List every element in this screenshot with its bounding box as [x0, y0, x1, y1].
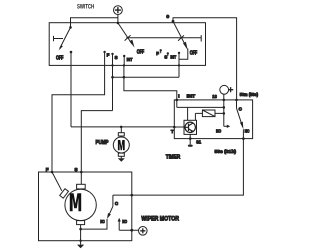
node c — [172, 20, 175, 23]
svg-text:S: S — [115, 55, 118, 60]
switch arm section 3 (to OFF) — [173, 21, 188, 50]
wire OFF1 down to pump bus — [70, 65, 72, 127]
wire INT2 to timer I — [124, 65, 177, 100]
node section 1 pivot — [69, 26, 72, 29]
ground 31 (timer) — [188, 145, 193, 147]
washer pump motor — [113, 127, 129, 156]
wire C out — [113, 194, 132, 196]
wire NO to plus — [119, 229, 138, 231]
brush (bottom) — [77, 221, 85, 225]
svg-text:I: I — [178, 93, 179, 98]
crossing X section 3 — [178, 35, 184, 40]
switch box S1 — [49, 23, 205, 66]
contact NO (motor) — [118, 218, 121, 231]
svg-text:F: F — [107, 53, 110, 58]
svg-text:C: C — [115, 201, 119, 206]
ground (wiper motor) — [77, 245, 84, 249]
contact C (motor) — [112, 195, 114, 206]
svg-text:INT: INT — [127, 57, 133, 62]
wire F rail to motor — [52, 65, 105, 172]
svg-text:WIPER MOTOR: WIPER MOTOR — [141, 215, 179, 222]
node NO/box edge — [130, 229, 133, 232]
node NC/box — [242, 137, 245, 140]
wire 1S down to NO — [223, 100, 225, 126]
node pump feed — [120, 126, 123, 129]
node INT2/H2 — [123, 76, 126, 79]
wire OFF3 to INT3 hook — [179, 49, 188, 60]
wire common to NC — [81, 226, 107, 230]
crossing X section 2 — [125, 35, 131, 40]
contact NO (timer) — [224, 125, 230, 128]
contact bar (park) section 1 — [54, 36, 64, 41]
ground (pump) — [118, 156, 125, 161]
svg-text:SWITCH: SWITCH — [77, 3, 94, 10]
svg-text:PUMP: PUMP — [96, 140, 109, 146]
terminal S (section 2) — [111, 53, 113, 55]
transistor Q1 — [184, 120, 197, 134]
power supply (motor NO) — [139, 227, 148, 236]
relay contact C — [236, 100, 238, 108]
wire F to brush — [52, 172, 62, 191]
node motor common — [79, 228, 82, 231]
wire motor common down — [80, 225, 82, 245]
wire S rail to motor — [81, 111, 112, 172]
switch arm section 1 (to OFF) — [59, 27, 71, 50]
wire contact rail — [126, 37, 201, 39]
svg-text:c: c — [166, 14, 169, 20]
power supply (timer 1S) — [220, 85, 233, 100]
terminal INT (section 3) — [178, 52, 180, 54]
svg-text:F: F — [156, 51, 159, 56]
svg-text:NC: NC — [100, 219, 105, 224]
svg-text:NC: NC — [245, 128, 250, 133]
terminal OFF1 post — [70, 51, 73, 54]
svg-text:S: S — [75, 167, 78, 172]
wire timer NC to motor C — [132, 139, 244, 196]
svg-text:OFF: OFF — [190, 51, 197, 57]
svg-text:INT: INT — [170, 55, 176, 60]
brush (angled) — [60, 189, 69, 198]
svg-text:F: F — [46, 167, 49, 172]
wire I down — [176, 100, 178, 108]
wire c to timer relay (top right) — [173, 18, 237, 100]
svg-text:53s (31b): 53s (31b) — [215, 149, 237, 155]
node relay C feed — [235, 99, 238, 102]
wire B+ stem — [117, 15, 119, 23]
contact NC (motor) — [106, 219, 108, 226]
contact bar right end — [200, 35, 202, 41]
wiper motor box — [39, 172, 132, 241]
node rail/1S — [223, 106, 226, 109]
svg-text:31: 31 — [196, 140, 201, 145]
wire H2 bus — [113, 76, 180, 78]
wire emitter to ground — [189, 134, 191, 144]
terminal F (section 2) — [103, 51, 105, 53]
svg-text:T: T — [171, 129, 174, 134]
svg-text:53m (53s): 53m (53s) — [240, 92, 259, 98]
svg-text:1S: 1S — [212, 94, 217, 99]
node T — [173, 126, 176, 129]
switch arm section 2 (to OFF) — [118, 23, 135, 48]
park arm C to NC — [107, 206, 113, 219]
terminal F (section 3) — [160, 49, 162, 51]
terminal INT (section 2) — [123, 55, 125, 57]
svg-text:OFF: OFF — [137, 50, 144, 56]
terminal S (section 3) — [167, 52, 169, 54]
wire T to base — [174, 126, 184, 128]
wire collector stub — [187, 107, 189, 120]
node S2/H2 — [111, 76, 114, 79]
wire S to brush — [80, 172, 82, 184]
svg-text:NO: NO — [216, 128, 222, 133]
node S (motor) — [80, 171, 83, 174]
brush (top) — [77, 184, 86, 189]
timer box U2 — [174, 100, 252, 139]
wiper motor M — [65, 189, 96, 220]
svg-text:OFF: OFF — [56, 56, 63, 62]
svg-text:TIMER: TIMER — [166, 154, 181, 160]
svg-text:NO: NO — [122, 219, 127, 224]
node emitter/box — [189, 137, 192, 140]
node C/box edge — [131, 194, 134, 197]
svg-text:S: S — [164, 54, 167, 59]
svg-text:C: C — [239, 107, 243, 112]
power supply B+ (top) — [114, 6, 123, 15]
node at B+ / switch common — [117, 22, 120, 25]
wire S2 down — [112, 65, 114, 110]
relay coil K1 — [195, 110, 225, 120]
wire pump bus to timer T — [71, 126, 174, 128]
wire top bus to section 1 — [71, 18, 118, 28]
wire collector rail — [177, 106, 224, 108]
node I — [176, 99, 179, 102]
wire INT3 drop through box — [178, 59, 180, 77]
contact NC (timer) — [242, 129, 244, 138]
relay arm to NC — [237, 108, 244, 129]
svg-text:INT: INT — [187, 93, 196, 98]
node F (motor) — [51, 171, 54, 174]
node 1S — [223, 99, 226, 102]
